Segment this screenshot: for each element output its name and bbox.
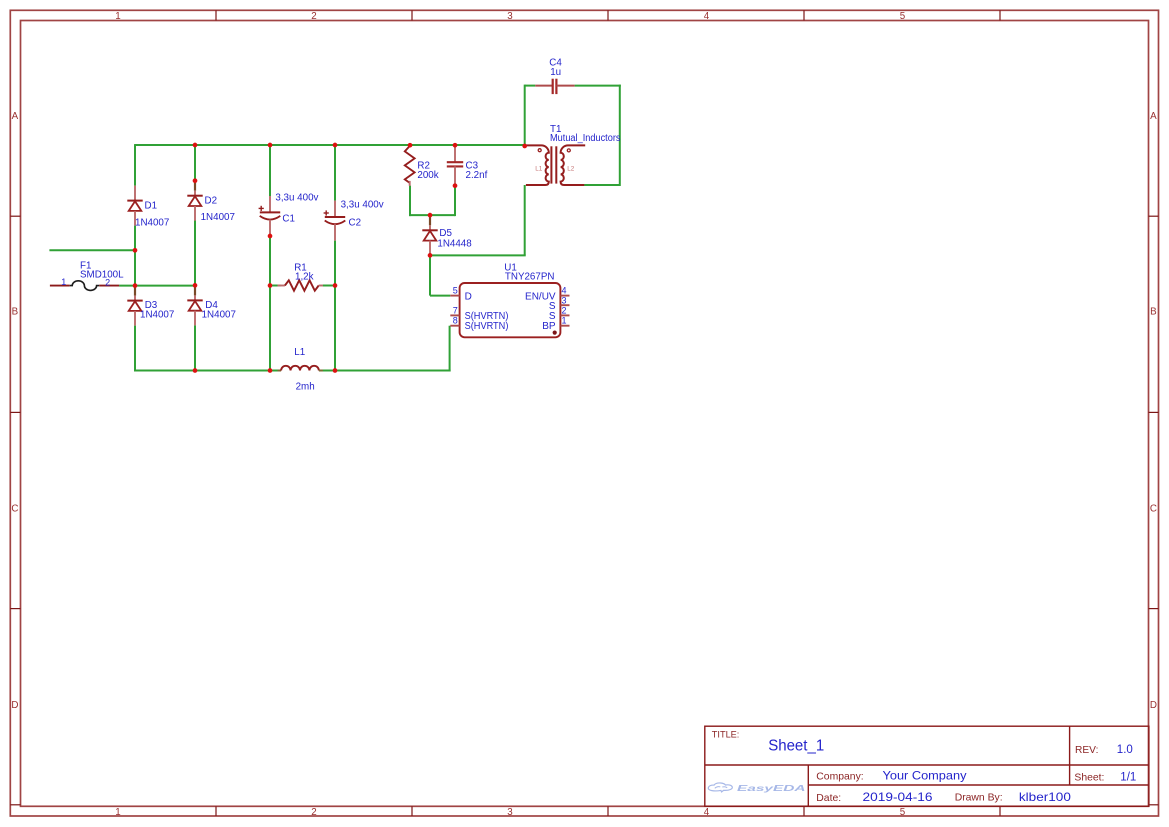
svg-text:4: 4 — [704, 11, 710, 22]
svg-text:C: C — [11, 503, 18, 514]
svg-text:D: D — [11, 700, 18, 711]
svg-text:EasyEDA: EasyEDA — [737, 783, 806, 793]
svg-text:2: 2 — [562, 305, 567, 315]
svg-text:Company:: Company: — [816, 771, 863, 782]
svg-text:7: 7 — [453, 305, 458, 315]
svg-text:2mh: 2mh — [296, 381, 315, 392]
svg-text:3: 3 — [562, 295, 567, 305]
svg-text:1N4007: 1N4007 — [140, 310, 174, 321]
svg-text:klber100: klber100 — [1019, 791, 1071, 804]
svg-text:SMD100L: SMD100L — [80, 270, 124, 281]
svg-text:S(HVRTN): S(HVRTN) — [465, 321, 509, 332]
svg-text:B: B — [12, 306, 19, 317]
svg-text:1u: 1u — [550, 67, 561, 78]
svg-text:2: 2 — [311, 11, 316, 22]
svg-text:L1: L1 — [294, 347, 305, 358]
svg-text:BP: BP — [542, 321, 556, 332]
svg-text:Date:: Date: — [816, 793, 841, 804]
svg-text:C2: C2 — [349, 218, 362, 229]
svg-text:C: C — [1150, 503, 1157, 514]
svg-text:1N4007: 1N4007 — [135, 218, 169, 229]
svg-text:D2: D2 — [205, 195, 218, 206]
svg-text:5: 5 — [900, 11, 906, 22]
svg-text:3: 3 — [507, 11, 513, 22]
svg-text:Your Company: Your Company — [883, 770, 967, 783]
svg-text:1: 1 — [61, 277, 66, 287]
svg-text:L2: L2 — [567, 166, 575, 173]
svg-text:200k: 200k — [417, 170, 438, 181]
svg-text:D: D — [465, 292, 472, 303]
svg-text:Sheet_1: Sheet_1 — [768, 738, 824, 755]
svg-text:1: 1 — [562, 316, 567, 326]
svg-text:3,3u 400v: 3,3u 400v — [275, 192, 318, 203]
svg-text:D1: D1 — [145, 200, 158, 211]
svg-text:1.0: 1.0 — [1117, 744, 1133, 756]
svg-text:5: 5 — [453, 286, 458, 296]
svg-text:Mutual_Inductors: Mutual_Inductors — [550, 133, 621, 144]
svg-text:1N4007: 1N4007 — [202, 310, 236, 321]
svg-text:1/1: 1/1 — [1120, 771, 1136, 783]
svg-text:1N4448: 1N4448 — [437, 238, 472, 249]
svg-text:1,2k: 1,2k — [295, 271, 314, 282]
svg-text:3,3u 400v: 3,3u 400v — [341, 200, 384, 211]
svg-text:A: A — [12, 111, 19, 122]
svg-text:3: 3 — [507, 807, 513, 818]
svg-text:A: A — [1150, 111, 1157, 122]
svg-text:4: 4 — [704, 807, 710, 818]
svg-text:D: D — [1150, 700, 1157, 711]
svg-text:L1: L1 — [535, 166, 543, 173]
svg-text:2: 2 — [311, 807, 316, 818]
svg-text:REV:: REV: — [1075, 745, 1098, 756]
svg-text:TNY267PN: TNY267PN — [505, 271, 555, 282]
svg-text:1: 1 — [115, 11, 120, 22]
svg-text:2019-04-16: 2019-04-16 — [863, 791, 933, 804]
svg-text:8: 8 — [453, 316, 458, 326]
svg-text:2: 2 — [105, 277, 110, 287]
svg-text:B: B — [1150, 306, 1157, 317]
svg-text:1: 1 — [115, 807, 120, 818]
svg-text:4: 4 — [562, 286, 567, 296]
svg-text:Sheet:: Sheet: — [1074, 772, 1104, 783]
svg-text:5: 5 — [900, 807, 906, 818]
svg-text:C1: C1 — [282, 213, 295, 224]
svg-text:TITLE:: TITLE: — [712, 729, 740, 739]
svg-text:1N4007: 1N4007 — [201, 212, 235, 223]
svg-text:Drawn By:: Drawn By: — [955, 793, 1003, 804]
svg-text:2.2nf: 2.2nf — [466, 170, 488, 181]
